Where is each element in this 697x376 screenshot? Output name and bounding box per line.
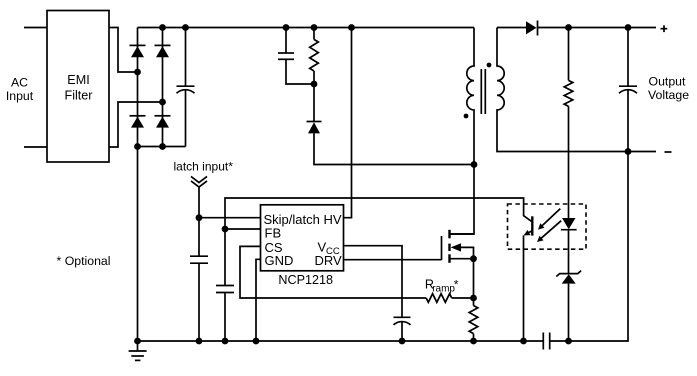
svg-text:Voltage: Voltage xyxy=(648,88,689,102)
node secondary return / zener junction xyxy=(565,338,572,345)
node AC line 2 / bridge B junction xyxy=(159,99,166,106)
node ground rail / FB cap junction xyxy=(222,338,229,345)
wire CS pin to current sense node xyxy=(240,246,426,298)
node latch input junction xyxy=(196,214,203,221)
IC U1 NCP1218 controller xyxy=(261,205,344,287)
node ground rail / GND pin junction xyxy=(253,338,260,345)
svg-text:GND: GND xyxy=(265,253,294,268)
node ground rail / VCC cap junction xyxy=(399,338,406,345)
node ground rail / bridge return junction xyxy=(134,338,141,345)
wire EMI filter to bridge node A xyxy=(109,28,138,73)
svg-text:latch input*: latch input* xyxy=(174,159,234,173)
transformer T1 secondary xyxy=(497,28,656,152)
node ground rail / sense resistor junction xyxy=(470,338,477,345)
wire latch node to Skip/latch pin xyxy=(199,217,261,219)
transformer T1 core xyxy=(481,69,485,114)
diode D3 bridge lower left xyxy=(130,116,146,128)
label plus xyxy=(661,25,668,32)
wire DRV pin to gate xyxy=(344,259,442,261)
node MOSFET source junction xyxy=(470,255,477,262)
node secondary phase dot xyxy=(487,63,492,68)
diode output rectifier xyxy=(526,21,656,36)
latch input arrow xyxy=(191,176,207,217)
capacitor VCC decoupling xyxy=(394,317,411,341)
EMI filter block xyxy=(47,11,109,163)
resistor Rramp xyxy=(426,294,473,303)
wire primary ground drop xyxy=(137,147,139,342)
svg-text:*: * xyxy=(454,278,459,292)
wire VCC pin to decoupling cap xyxy=(344,246,403,318)
transistor Q1 MOSFET xyxy=(442,230,475,298)
diode opto LED xyxy=(561,218,577,274)
transformer T1 primary xyxy=(450,28,475,235)
wire bridge column B xyxy=(162,28,164,147)
svg-text:CC: CC xyxy=(326,246,340,257)
capacitor output xyxy=(619,28,637,152)
diode zener xyxy=(556,271,581,341)
capacitor clamp xyxy=(278,28,314,85)
diode clamp xyxy=(307,84,475,165)
diode D4 bridge lower right xyxy=(155,116,171,128)
node ground rail / latch cap junction xyxy=(196,338,203,345)
svg-text:Filter: Filter xyxy=(65,88,93,102)
wire top DC bulk rail xyxy=(138,27,475,29)
wire FB node to optocoupler collector xyxy=(225,198,532,229)
wire GND pin to ground rail xyxy=(256,259,261,341)
wire HV pin to bulk rail xyxy=(344,28,352,218)
resistor sense xyxy=(469,298,478,341)
node primary phase dot xyxy=(464,114,469,119)
node output plus / load resistor junction xyxy=(565,24,572,31)
label AC Input xyxy=(6,76,34,103)
svg-text:* Optional: * Optional xyxy=(57,254,111,268)
transistor opto phototransistor xyxy=(524,216,533,341)
node clamp return / drain junction xyxy=(471,161,478,168)
capacitor latch xyxy=(190,218,208,341)
node output plus / output cap junction xyxy=(625,24,632,31)
node output minus / output cap junction xyxy=(625,148,632,155)
diode D2 bridge upper right xyxy=(155,45,171,57)
svg-text:Output: Output xyxy=(649,75,686,89)
wire output minus riser xyxy=(550,152,628,342)
wire AC input bottom stub xyxy=(24,146,47,148)
node bridge B bottom junction xyxy=(159,143,166,150)
label Output Voltage xyxy=(648,75,689,102)
svg-text:NCP1218: NCP1218 xyxy=(278,273,333,287)
svg-text:FB: FB xyxy=(265,225,282,240)
opto light arrow 1 xyxy=(538,209,560,230)
capacitor FB filter xyxy=(216,229,234,341)
node bulk rail / bulk cap junction xyxy=(182,24,189,31)
wire AC input top stub xyxy=(24,27,47,29)
svg-text:ramp: ramp xyxy=(432,283,455,294)
wire bridge column A xyxy=(137,28,139,147)
resistor load / feedback xyxy=(564,28,573,219)
wire EMI filter to bridge node B xyxy=(109,102,163,147)
svg-text:EMI: EMI xyxy=(67,73,89,87)
label minus xyxy=(665,151,672,153)
node AC line 1 / bridge A junction xyxy=(134,69,141,76)
capacitor bulk filter xyxy=(177,28,195,147)
node bulk rail / clamp cap junction xyxy=(283,24,290,31)
svg-text:Input: Input xyxy=(6,89,34,103)
opto light arrow 2 xyxy=(537,221,561,242)
label Rramp xyxy=(425,277,459,294)
node bulk rail / HV junction xyxy=(348,24,355,31)
node ground rail / opto emitter junction xyxy=(520,338,527,345)
node clamp RC junction xyxy=(311,81,318,88)
capacitor Y safety xyxy=(543,333,549,350)
optocoupler dashed box xyxy=(508,204,587,249)
svg-text:AC: AC xyxy=(11,76,28,90)
wire bridge bottom rail xyxy=(138,146,186,148)
ground xyxy=(129,341,147,360)
node FB junction xyxy=(222,226,229,233)
wire secondary ground rail xyxy=(138,340,544,342)
resistor clamp xyxy=(310,28,319,85)
node bridge A bottom junction xyxy=(134,143,141,150)
node CS / Rramp / sense junction xyxy=(470,295,477,302)
diode D1 bridge upper left xyxy=(130,45,146,57)
node bulk rail / bridge B junction xyxy=(159,24,166,31)
node bulk rail / clamp resistor junction xyxy=(311,24,318,31)
